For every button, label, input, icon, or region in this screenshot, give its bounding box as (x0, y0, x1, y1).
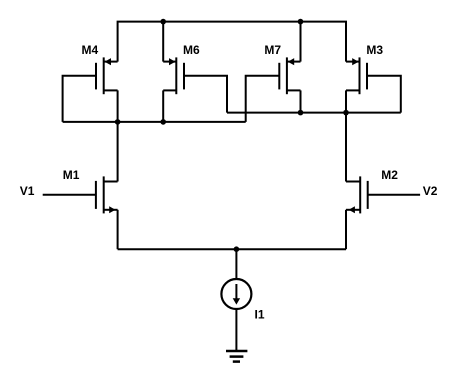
svg-text:M3: M3 (366, 43, 383, 57)
svg-text:M2: M2 (381, 168, 398, 182)
svg-text:M7: M7 (264, 43, 281, 57)
svg-text:M1: M1 (63, 168, 80, 182)
svg-text:M6: M6 (183, 43, 200, 57)
svg-text:V1: V1 (20, 184, 35, 198)
svg-text:I1: I1 (255, 308, 265, 322)
svg-text:V2: V2 (423, 184, 438, 198)
svg-text:M4: M4 (82, 43, 99, 57)
